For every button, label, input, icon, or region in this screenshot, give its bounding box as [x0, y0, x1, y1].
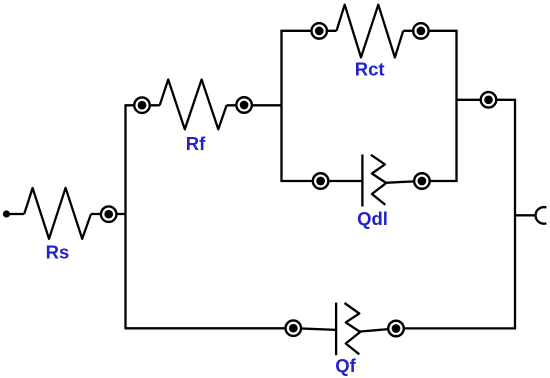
wire: node 9 to Qf plate (sloped) [293, 328, 336, 330]
node 5 (Rct right junction) [413, 23, 429, 39]
svg-text:Qf: Qf [335, 355, 356, 376]
resistor Rs [24, 188, 91, 239]
node 7 (Qdl right junction) [414, 173, 430, 189]
wire: Rf to parallel box left edge (through node 3) [227, 104, 282, 106]
wire: Rs to left rail (through node 1) [91, 213, 127, 215]
svg-text:Qdl: Qdl [357, 208, 388, 229]
resistor Rct [337, 5, 404, 58]
CPE Qf (plate and zigzag) [336, 303, 360, 356]
wire: parallel box left edge (vertical) [280, 31, 282, 181]
svg-text:Rf: Rf [186, 133, 206, 154]
wire: right rail to output terminal C [515, 214, 536, 216]
wire: node 7 to box right edge [422, 180, 458, 182]
wire: left terminal to Rs [9, 213, 24, 215]
node 8 (box output junction) [481, 92, 497, 108]
terminal dot (left input terminal) [3, 210, 10, 217]
CPE Qdl (plate and zigzag) [362, 155, 386, 207]
node 9 (Qf left junction) [286, 320, 302, 336]
terminal C (open arc output terminal) [536, 207, 547, 224]
wire: parallel box right edge (vertical) [455, 31, 457, 181]
node 3 (Rf right junction) [236, 97, 252, 113]
node 2 (Rf left junction) [134, 97, 150, 113]
wire: right rail (vertical) [514, 100, 516, 329]
wire: box left edge to Qdl plate (through node 6) [280, 180, 362, 182]
wire: box right edge to right rail (through node 8) [457, 99, 517, 101]
wire: node 10 to right rail [396, 327, 516, 329]
wire: box left edge to Rct (through node 4) [280, 30, 336, 32]
node 4 (Rct left junction) [311, 23, 327, 39]
node 10 (Qf right junction) [388, 321, 404, 337]
wire: Qdl zigzag to node 7 (sloped) [385, 181, 422, 183]
wire: Rct to box right edge (through node 5) [403, 30, 457, 32]
wire: left rail (vertical) [124, 105, 126, 328]
resistor Rf [160, 80, 227, 130]
wire: Qf zigzag to node 10 (sloped) [359, 329, 396, 332]
svg-text:Rs: Rs [46, 242, 70, 263]
wire: top branch, left rail to Rf (through node 2) [125, 104, 160, 106]
node 6 (Qdl left junction) [313, 173, 329, 189]
wire: bottom branch, left rail to node 9 [125, 327, 294, 329]
node 1 (Rs right junction) [101, 206, 117, 222]
svg-text:Rct: Rct [355, 59, 385, 80]
